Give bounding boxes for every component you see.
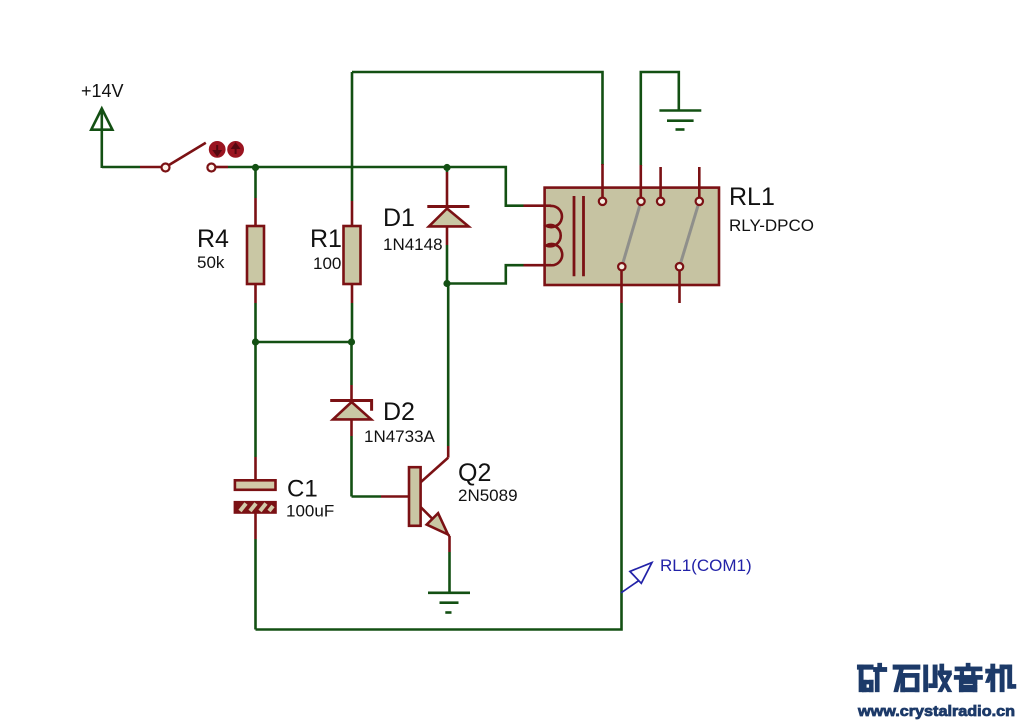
char shou bbox=[924, 664, 951, 691]
node R1 bottom junction bbox=[348, 338, 355, 345]
wire relay pin 2 to top ground bbox=[641, 72, 679, 166]
svg-text:2N5089: 2N5089 bbox=[458, 486, 518, 505]
switch state indicator dots bbox=[209, 141, 244, 158]
contact pads bbox=[599, 198, 606, 205]
svg-text:100: 100 bbox=[313, 254, 341, 273]
wire Q2 emitter to ground bbox=[448, 552, 451, 592]
wire power to switch bbox=[102, 166, 140, 169]
svg-text:R4: R4 bbox=[197, 225, 229, 253]
wire switch to rail junction bbox=[228, 166, 256, 169]
char yin bbox=[955, 664, 983, 692]
contact levers bbox=[622, 201, 641, 266]
svg-text:R1: R1 bbox=[310, 225, 342, 253]
wire bottom run C1 to relay COM1 bbox=[256, 303, 622, 630]
wire R4 bottom to R1 bottom bbox=[256, 341, 352, 344]
svg-text:D1: D1 bbox=[383, 204, 415, 232]
svg-text:C1: C1 bbox=[287, 476, 318, 503]
svg-text:1N4148: 1N4148 bbox=[383, 235, 443, 254]
coil entry stubs bbox=[524, 204, 552, 207]
resistor R4 bbox=[247, 167, 264, 342]
wire D2 to Q2 base bbox=[352, 495, 382, 498]
transistor Q2 bbox=[381, 446, 450, 552]
svg-text:D2: D2 bbox=[383, 398, 415, 426]
wire top rail R1 to relay pin bbox=[352, 72, 603, 165]
annotation arrow RL1(COM1) bbox=[621, 563, 652, 593]
ground top right bbox=[659, 111, 701, 130]
svg-text:100uF: 100uF bbox=[286, 502, 334, 521]
wire D1 junction to relay coil bottom bbox=[447, 265, 524, 283]
node D1 bottom junction bbox=[443, 280, 450, 287]
svg-text:www.crystalradio.cn: www.crystalradio.cn bbox=[857, 703, 1015, 720]
wire main rail bbox=[256, 167, 524, 206]
capacitor C1 bbox=[235, 342, 276, 630]
char kuang bbox=[858, 664, 887, 692]
svg-text:RLY-DPCO: RLY-DPCO bbox=[729, 216, 814, 235]
svg-text:50k: 50k bbox=[197, 253, 225, 272]
relay pin stubs bbox=[601, 164, 604, 198]
watermark logo kuang shi shou yin ji bbox=[858, 664, 1016, 692]
svg-text:RL1: RL1 bbox=[729, 183, 775, 211]
zener diode D2 bbox=[330, 342, 371, 497]
node D1 top junction bbox=[443, 164, 450, 171]
ground under Q2 bbox=[428, 593, 470, 613]
coil arcs bbox=[546, 206, 562, 265]
node R4 bottom junction bbox=[252, 338, 259, 345]
char shi bbox=[893, 665, 919, 691]
core bars bbox=[573, 196, 576, 276]
node main rail junction A bbox=[252, 164, 259, 171]
svg-text:1N4733A: 1N4733A bbox=[364, 427, 436, 446]
power terminal arrow bbox=[91, 109, 112, 169]
wire Q2 collector up to D1 junction bbox=[447, 284, 450, 447]
svg-text:Q2: Q2 bbox=[458, 459, 491, 487]
char ji bbox=[986, 664, 1016, 691]
resistor R1 bbox=[344, 72, 361, 342]
switch bbox=[140, 143, 228, 172]
svg-text:+14V: +14V bbox=[81, 81, 124, 101]
svg-text:RL1(COM1): RL1(COM1) bbox=[660, 556, 752, 575]
diode D1 bbox=[427, 167, 469, 284]
relay RL1 bbox=[524, 164, 720, 303]
